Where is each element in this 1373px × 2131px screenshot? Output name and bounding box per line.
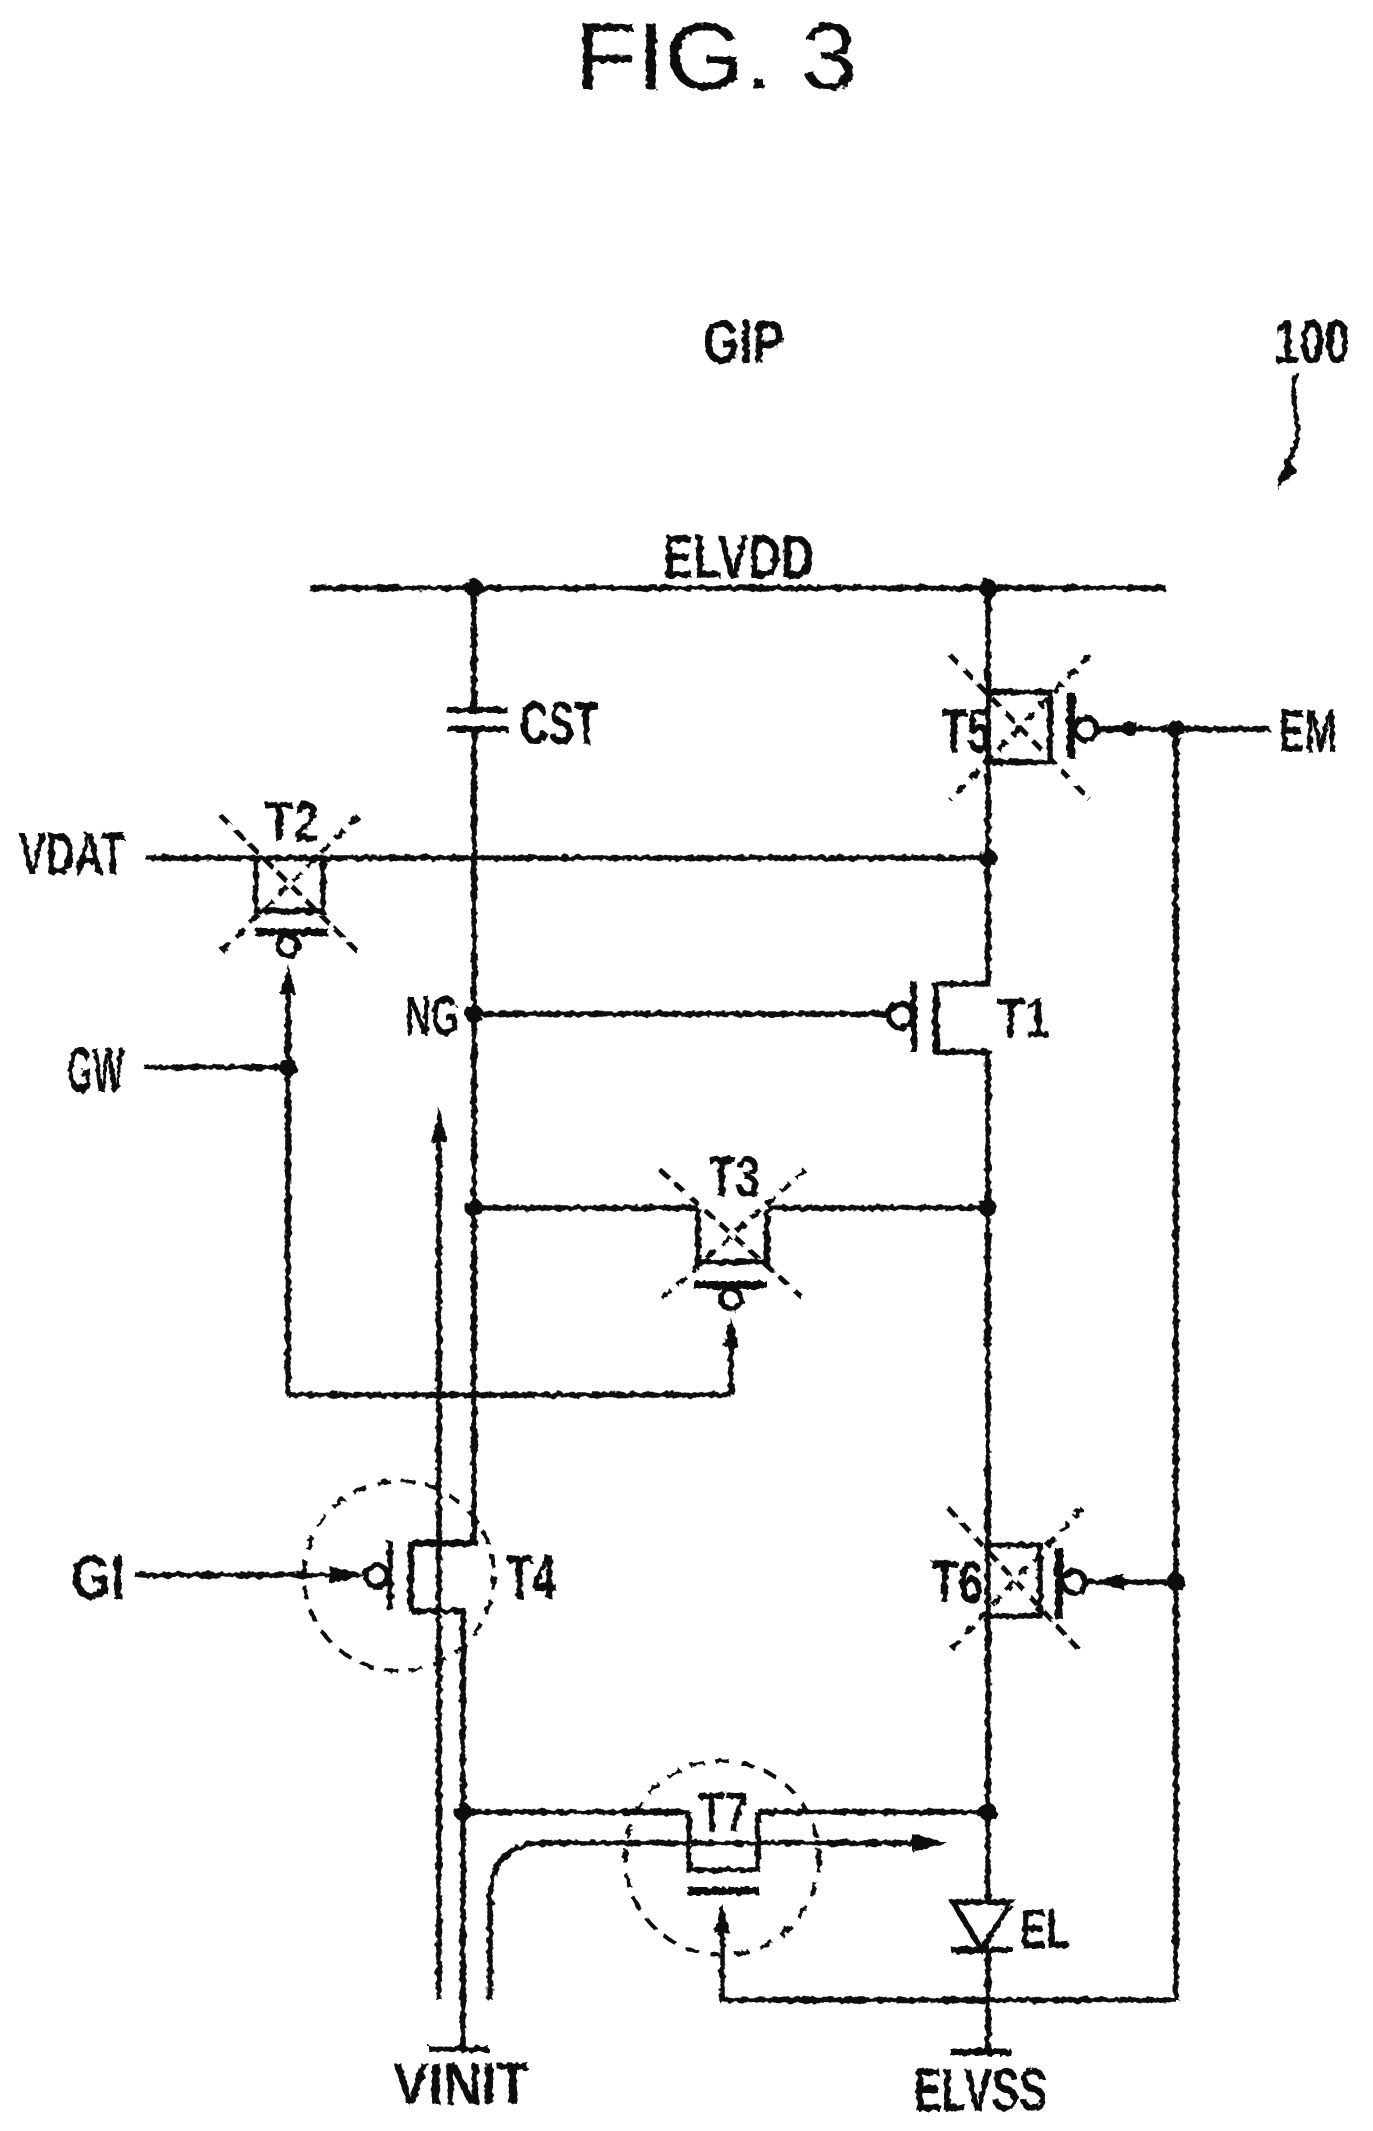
wire EL to ELVSS (985, 1950, 991, 2052)
node EM-T5 junction (1167, 720, 1185, 738)
transistor T1 (889, 1004, 913, 1028)
node T3-left junction (465, 1199, 483, 1217)
svg-text:GI: GI (71, 1543, 125, 1613)
svg-text:T4: T4 (507, 1543, 556, 1613)
transistor T2 (crossed out) (256, 858, 323, 911)
node NG junction (465, 1005, 483, 1023)
svg-text:T5: T5 (941, 697, 991, 766)
svg-text:VINIT: VINIT (393, 2051, 529, 2117)
wire T3 gate arrow from GW feedback (723, 1317, 739, 1347)
wire T5 to VDAT node (985, 762, 991, 858)
wire T3 row right (767, 1205, 988, 1211)
wire T6 to EL (985, 1616, 991, 1902)
wire VDAT line (146, 855, 988, 861)
svg-text:T3: T3 (708, 1145, 760, 1210)
wire ELVDD to T5 (985, 588, 991, 692)
svg-text:ELVDD: ELVDD (663, 523, 814, 591)
terminal VINIT (429, 2046, 489, 2052)
wire NG to T1 gate (474, 1011, 891, 1017)
svg-text:T6: T6 (931, 1549, 983, 1616)
wire ELVDD power rail (309, 585, 1166, 591)
wire GI line with arrow (135, 1572, 334, 1578)
svg-text:EM: EM (1279, 697, 1337, 765)
svg-text:T1: T1 (997, 986, 1050, 1050)
node VDAT-T5 junction (979, 849, 997, 867)
wire EM to T6 gate with arrow (1086, 1579, 1176, 1585)
svg-text:GIP: GIP (703, 308, 784, 376)
node ELVDD-CST junction (465, 579, 483, 597)
dashed circle around T4 (304, 1481, 494, 1671)
wire T7 row right (758, 1809, 988, 1815)
wire GW feedback horizontal (288, 1392, 731, 1398)
node ELVDD-T5 junction (979, 579, 997, 597)
leader squiggle for 100 (1281, 372, 1298, 477)
node T4-VINIT junction (454, 1803, 472, 1821)
node EM-T6 junction (1167, 1573, 1185, 1591)
transistor T4 (366, 1565, 388, 1587)
wire VINIT up-arrow line (436, 1135, 442, 2000)
wire EM vertical down right side (1173, 729, 1179, 2000)
svg-text:100: 100 (1274, 308, 1350, 376)
wire CST bottom plate down to T4 top (NG column) (471, 729, 477, 1543)
wire T7 row left (463, 1809, 689, 1815)
svg-text:EL: EL (1020, 1897, 1070, 1960)
svg-text:NG: NG (405, 984, 459, 1048)
wire T3 row left (474, 1205, 698, 1211)
transistor T6 (crossed out) (985, 1208, 991, 1545)
wire GW line (144, 1064, 288, 1070)
svg-text:T7: T7 (699, 1780, 748, 1843)
svg-text:CST: CST (520, 690, 598, 757)
wire EM to T5 gate (1098, 726, 1270, 732)
transistor T7 (689, 1812, 758, 1870)
capacitor CST (447, 707, 508, 713)
wire ELVDD to CST top plate (471, 588, 477, 710)
node T7-right junction (979, 1803, 997, 1821)
svg-text:GW: GW (67, 1034, 124, 1106)
node GW-T2 junction (279, 1058, 297, 1076)
dashed circle around T7 (625, 1761, 819, 1955)
wire curved VINIT path with right arrow (490, 1843, 914, 2000)
svg-text:ELVSS: ELVSS (914, 2056, 1047, 2124)
transistor T3 (crossed out) (698, 1208, 767, 1262)
node T3-right junction (979, 1199, 997, 1217)
svg-text:FIG. 3: FIG. 3 (575, 3, 857, 110)
transistor T5 (crossed out) (988, 692, 1050, 762)
wire T2 gate to GW with up arrow (280, 964, 296, 994)
diode EL (953, 1902, 1011, 1950)
svg-text:VDAT: VDAT (19, 821, 125, 887)
svg-text:T2: T2 (265, 790, 319, 854)
terminal ELVSS (950, 2049, 1011, 2056)
